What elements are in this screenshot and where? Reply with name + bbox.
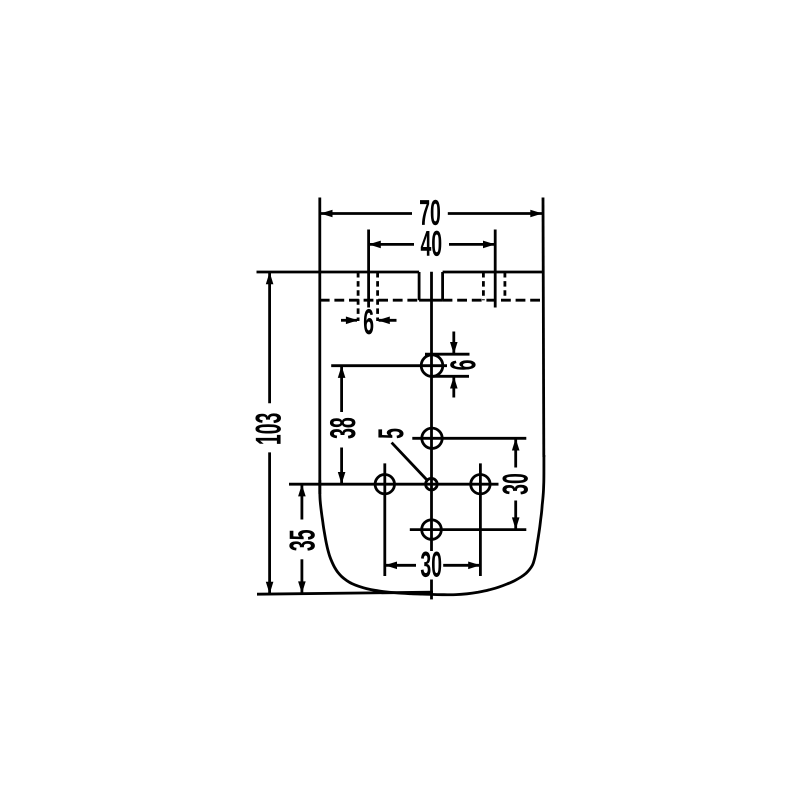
hole H1 top (421, 355, 443, 377)
dim 70 line (320, 212, 412, 215)
dim text 103 (255, 413, 281, 444)
arrowhead 38 bottom (338, 472, 346, 484)
dim 30 bottom line (385, 564, 416, 567)
right slot hidden edge 2 (dashed) (503, 272, 506, 300)
notch left wall (418, 272, 421, 300)
hole H4 left (375, 475, 394, 494)
arrowhead 40 left (369, 241, 381, 249)
notch bottom (419, 299, 443, 302)
dim text 35 (289, 530, 315, 551)
dim text 38 (330, 418, 356, 439)
dim 40 extension right (494, 230, 497, 308)
hidden flange line left (dashed) (320, 299, 419, 302)
dim 6 hole bottom tangent (431, 375, 469, 378)
arrowhead 35 top (298, 484, 306, 496)
arrowhead 30v bottom (512, 517, 520, 529)
arrowhead 35 bottom (298, 581, 306, 593)
vertical centerline upper (430, 272, 433, 551)
arrowhead 6 hole up (450, 376, 458, 388)
notch right wall (441, 272, 444, 300)
dim text 30 bottom (421, 552, 441, 578)
hole H3 small center (426, 478, 438, 490)
dim 6 hole upper arrow shaft (452, 332, 455, 354)
dim text 40 (421, 231, 442, 256)
arrowhead 6 slot right (378, 317, 390, 325)
dim 6 slot left arrow shaft (341, 319, 357, 322)
centerline through H1 (331, 364, 447, 367)
hole H2 (422, 428, 442, 448)
right slot hidden edge 1 (dashed) (482, 272, 485, 300)
arrowhead 30 bottom left (385, 562, 397, 570)
arrowhead 70 right (530, 210, 542, 218)
arrowhead 6 slot left (346, 317, 358, 325)
hole H6 bottom (422, 520, 442, 540)
arrowhead 40 right (483, 241, 495, 249)
arrowhead 38 top (338, 366, 346, 378)
arrowhead 103 top (266, 272, 274, 284)
dim text 30 vertical (502, 474, 528, 494)
dim 6 slot right arrow shaft (379, 319, 397, 322)
arrowhead 30v top (512, 438, 520, 450)
leader text 5 (378, 429, 403, 439)
plate bottom curve (320, 455, 544, 595)
vertical centerline through H4 (383, 463, 386, 576)
centerline middle hole row (289, 483, 499, 486)
left slot hidden edge 2 (dashed) (376, 272, 379, 321)
plate top edge left segment (incl. 103 extension) (257, 271, 420, 274)
centerline through H6 (410, 528, 527, 531)
dim text 6 slot (364, 309, 373, 334)
plate top edge right segment (443, 271, 543, 274)
dim 103 line (268, 272, 271, 403)
arrowhead 70 left (320, 210, 332, 218)
leader line for 5 (392, 443, 427, 480)
baseline extension bottom (257, 592, 433, 594)
hidden flange line right (dashed) (443, 299, 543, 302)
dim text 70 (420, 200, 440, 225)
plate left edge with extension above (318, 198, 321, 495)
dim text 6 hole (450, 360, 475, 369)
vertical centerline lower (430, 580, 433, 600)
dim 38 line (340, 366, 343, 412)
arrowhead 6 hole down (450, 342, 458, 354)
arrowhead 103 bottom (266, 582, 274, 594)
vertical centerline through H5 (479, 463, 482, 576)
dim 30 vertical line (514, 438, 517, 467)
left slot hidden edge 1 (dashed) (357, 272, 360, 321)
dim 6 hole top tangent (425, 353, 470, 356)
dim 35 line (300, 484, 303, 519)
centerline through H2 (412, 437, 526, 440)
dim 40 extension left (367, 230, 370, 308)
plate right edge with extension above (542, 198, 546, 458)
dim 6 hole lower arrow shaft (452, 378, 455, 398)
hole H5 right (471, 475, 490, 494)
arrowhead 30 bottom right (468, 562, 480, 570)
dim 40 line (369, 243, 414, 246)
